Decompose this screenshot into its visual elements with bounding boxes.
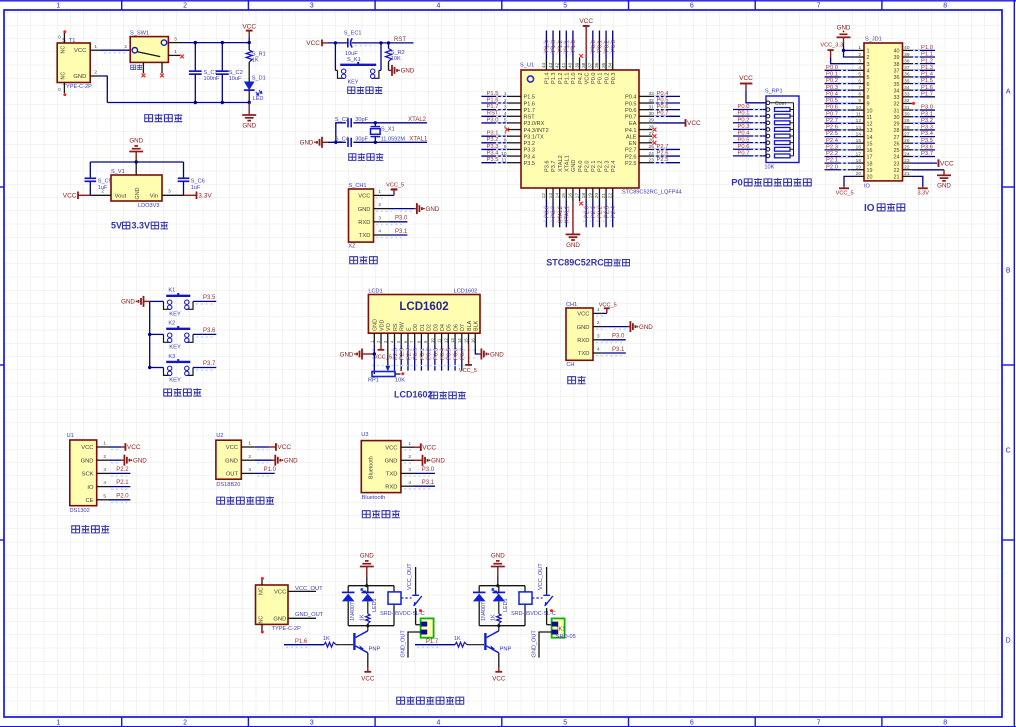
svg-text:GND: GND	[577, 325, 590, 331]
svg-text:P3.7: P3.7	[921, 151, 933, 157]
RP1 resistor P0.7	[733, 151, 794, 158]
svg-text:P0.4: P0.4	[826, 91, 839, 97]
resistor 1K vertical (P1.6)	[359, 601, 370, 625]
svg-text:P2.2: P2.2	[598, 206, 604, 218]
svg-text:VCC: VCC	[492, 675, 506, 682]
svg-text:P1.0: P1.0	[571, 40, 577, 52]
MCU pin 5 P3.0/RX	[481, 117, 544, 127]
svg-text:31: 31	[894, 108, 900, 114]
MCU pin 36 P0.1 (top)	[594, 31, 603, 85]
JD1 pin 21	[894, 171, 912, 180]
svg-text:P2.1: P2.1	[591, 206, 597, 218]
svg-text:S_U1: S_U1	[520, 63, 534, 69]
svg-text:P2.6: P2.6	[826, 125, 838, 131]
svg-text:11.0592M: 11.0592M	[381, 136, 406, 142]
svg-text:GND_OUT: GND_OUT	[401, 630, 407, 658]
svg-text:4: 4	[858, 65, 861, 71]
svg-text:P0.4: P0.4	[625, 95, 637, 101]
svg-text:PNP: PNP	[369, 647, 381, 653]
svg-text:KEY: KEY	[169, 311, 181, 317]
svg-text:33: 33	[904, 92, 910, 98]
top rail wire VCC net	[183, 41, 251, 44]
svg-text:40: 40	[568, 62, 574, 68]
LED (P1.6)	[361, 589, 378, 612]
svg-text:9: 9	[858, 98, 861, 104]
title 下载口	[350, 256, 378, 264]
relay circuit ground (P1.6)	[360, 553, 374, 586]
svg-text:29: 29	[894, 122, 900, 128]
svg-text:GND: GND	[937, 183, 951, 190]
svg-text:P3.2: P3.2	[921, 118, 933, 124]
svg-text:31: 31	[904, 105, 910, 111]
svg-text:38: 38	[581, 62, 587, 68]
svg-text:P3.5: P3.5	[524, 161, 536, 167]
svg-text:5: 5	[867, 75, 870, 81]
svg-text:P3.1: P3.1	[395, 229, 408, 235]
svg-text:13: 13	[856, 125, 862, 131]
svg-text:P0.4: P0.4	[738, 131, 751, 137]
ground reset	[389, 62, 415, 76]
svg-text:VCC: VCC	[242, 23, 256, 30]
MCU pin 21 P2.3 (bottom)	[601, 160, 610, 227]
JD1 pin 5	[825, 72, 870, 82]
svg-text:P3.4: P3.4	[921, 131, 934, 137]
svg-text:2: 2	[408, 454, 411, 460]
JD1 pin 8	[825, 91, 870, 101]
svg-text:36: 36	[894, 75, 900, 81]
svg-text:17: 17	[856, 151, 862, 157]
connector S_JD1 box	[864, 37, 903, 190]
VCC_OUT wire	[288, 586, 323, 592]
svg-text:28: 28	[648, 124, 654, 130]
JD1 pin 38	[894, 58, 936, 68]
MCU pin 14 XTAL2 (bottom)	[554, 155, 563, 227]
svg-text:1K: 1K	[490, 614, 496, 621]
title 复位电路	[348, 86, 383, 93]
MCU pin 31 P0.6	[625, 104, 680, 114]
svg-text:KEY: KEY	[169, 344, 181, 350]
transistor PNP (P1.7)	[484, 626, 511, 653]
svg-text:27: 27	[648, 131, 654, 137]
svg-text:LCD1602: LCD1602	[394, 390, 433, 400]
JD1 pin 7	[825, 85, 870, 95]
svg-text:ALE: ALE	[626, 134, 637, 140]
MCU pin 4 RST	[481, 111, 535, 121]
connector S_T1 TYPE-C-2P	[57, 38, 92, 90]
svg-text:RS: RS	[393, 323, 399, 331]
relay rails (P1.6)	[348, 584, 394, 627]
svg-text:1uF: 1uF	[191, 185, 201, 191]
CH1 pin1 VCC_5	[593, 302, 617, 316]
svg-text:U2: U2	[216, 433, 223, 439]
MCU pin 30 P0.7	[625, 111, 680, 121]
svg-text:P0.6: P0.6	[738, 144, 750, 150]
svg-text:TYPE-C-2P: TYPE-C-2P	[63, 84, 92, 90]
svg-text:1: 1	[103, 441, 106, 447]
svg-text:Bluetooth: Bluetooth	[369, 456, 375, 479]
U1 pin1 VCC	[97, 441, 141, 452]
svg-text:VCC: VCC	[306, 40, 320, 47]
svg-text:P2.0: P2.0	[584, 206, 590, 218]
svg-text:10K: 10K	[764, 165, 774, 171]
GND_OUT branch (P1.6)	[401, 630, 421, 658]
svg-text:P0.6: P0.6	[657, 104, 669, 110]
svg-text:15: 15	[856, 138, 862, 144]
svg-text:5: 5	[103, 493, 106, 499]
JD1 pin 26	[894, 138, 936, 148]
svg-text:P4.0: P4.0	[578, 160, 584, 172]
svg-text:20: 20	[594, 193, 600, 199]
svg-text:K3: K3	[168, 354, 175, 360]
svg-text:6: 6	[690, 3, 694, 10]
svg-text:NC: NC	[61, 72, 67, 80]
svg-text:3: 3	[858, 58, 861, 64]
U3 pin3 P3.0	[401, 467, 435, 476]
svg-text:1: 1	[400, 367, 403, 373]
LCD pin 13 D6	[450, 324, 459, 371]
JD1 VCC pin 23	[912, 159, 954, 167]
svg-text:P1.3: P1.3	[551, 40, 557, 52]
JD1 pin 20	[855, 171, 873, 180]
MCU pin 19 P2.1 (bottom)	[588, 160, 597, 227]
title 继电器控制电路	[397, 696, 464, 704]
capacitor S_C6 1uF	[178, 162, 205, 195]
svg-text:RST: RST	[524, 115, 536, 121]
U2 pin2 GND	[241, 454, 298, 466]
svg-text:3.3V: 3.3V	[918, 191, 930, 197]
svg-text:VCC: VCC	[277, 444, 291, 451]
svg-text:1K: 1K	[252, 57, 259, 63]
svg-text:P1.2: P1.2	[921, 58, 933, 64]
JD1 pin 28	[894, 125, 936, 135]
svg-text:D4: D4	[440, 324, 446, 331]
JD1 pin 34	[894, 85, 936, 95]
svg-text:GND: GND	[639, 324, 653, 331]
svg-text:GND: GND	[81, 458, 94, 464]
svg-text:19: 19	[867, 168, 873, 174]
ground symbol power circuit	[242, 103, 256, 130]
svg-text:LED1: LED1	[503, 599, 509, 613]
svg-text:S_C1: S_C1	[204, 70, 218, 76]
MCU pin 42 P1.2 (top)	[554, 31, 563, 85]
svg-text:D7: D7	[460, 324, 466, 331]
svg-text:P2.7: P2.7	[657, 144, 669, 150]
svg-text:5: 5	[563, 720, 567, 727]
svg-text:D2: D2	[427, 324, 433, 331]
U3 pin4 P3.1	[401, 480, 435, 489]
svg-text:P0.3: P0.3	[738, 124, 750, 130]
capacitor S_C2 10uF	[216, 43, 243, 103]
title 串口	[568, 376, 586, 384]
svg-text:GND: GND	[360, 553, 374, 560]
LCD pin 6 E	[403, 327, 412, 371]
svg-text:19: 19	[588, 193, 594, 199]
svg-text:1N4007: 1N4007	[481, 602, 487, 621]
svg-text:2: 2	[858, 52, 861, 58]
MCU pin 34 P0.3 (top)	[608, 31, 617, 85]
svg-text:34: 34	[894, 88, 900, 94]
svg-text:P3.7: P3.7	[551, 206, 557, 218]
svg-text:STC89C52RC_LQFP44: STC89C52RC_LQFP44	[622, 190, 682, 196]
JD1 pin 12	[825, 118, 873, 128]
svg-text:GND: GND	[225, 458, 238, 464]
switch S_SW1	[130, 31, 168, 70]
svg-text:VCC_3.3: VCC_3.3	[820, 43, 843, 49]
JD1 pin 27	[894, 131, 936, 141]
RP1 resistor P0.1	[733, 111, 794, 118]
svg-text:LED1: LED1	[372, 599, 378, 613]
relay coil SRD-05VDC-SL-C (P1.6)	[380, 592, 425, 617]
svg-text:P2.2: P2.2	[116, 467, 129, 473]
RP1 resistor P0.2	[733, 117, 794, 124]
svg-text:20: 20	[867, 175, 873, 181]
svg-text:P3.6: P3.6	[545, 160, 551, 172]
svg-text:E: E	[406, 327, 412, 331]
JD1 pin 24	[894, 151, 936, 161]
MCU pin 17 P4.0 (bottom)	[574, 160, 583, 205]
MCU pin 8 P3.2	[481, 137, 535, 147]
svg-text:39: 39	[574, 62, 580, 68]
svg-text:GND_OUT: GND_OUT	[532, 630, 538, 658]
svg-text:11: 11	[867, 115, 873, 121]
U1 pin3 P2.2	[97, 467, 131, 476]
MCU ground symbol	[566, 229, 581, 249]
svg-text:P1.3: P1.3	[921, 65, 933, 71]
svg-text:P3.6: P3.6	[921, 144, 933, 150]
svg-text:16: 16	[470, 338, 475, 343]
svg-text:21: 21	[601, 193, 607, 199]
svg-text:GND: GND	[566, 242, 580, 249]
svg-text:VCC: VCC	[361, 675, 375, 682]
svg-text:3: 3	[310, 3, 314, 10]
svg-text:TXD: TXD	[359, 233, 371, 239]
JD1 pin 10	[825, 105, 873, 115]
svg-text:P1.4: P1.4	[921, 72, 934, 78]
svg-text:TXD: TXD	[578, 351, 590, 357]
title 电源电路	[145, 114, 183, 122]
svg-text:15: 15	[464, 338, 469, 343]
svg-text:NC: NC	[259, 587, 265, 595]
svg-text:14: 14	[554, 193, 560, 199]
svg-text:14: 14	[856, 131, 862, 137]
svg-text:25: 25	[904, 145, 910, 151]
svg-text:U3: U3	[361, 432, 368, 438]
svg-text:VCC_5: VCC_5	[386, 183, 404, 189]
svg-text:GND: GND	[426, 206, 440, 213]
svg-text:GND: GND	[431, 458, 445, 465]
svg-text:VCC: VCC	[358, 194, 370, 200]
svg-text:P1.4: P1.4	[545, 39, 551, 52]
title 晶振电路	[349, 153, 384, 160]
svg-text:P0.6: P0.6	[625, 108, 637, 114]
CH1 pin2 GND	[593, 320, 653, 332]
LCD pin2 VDD VCC_5 port	[374, 344, 392, 360]
XTAL2 wire	[353, 117, 427, 125]
svg-text:EN: EN	[629, 141, 637, 147]
emitter VCC (P1.7)	[492, 653, 506, 683]
connector S_CH1	[348, 183, 373, 249]
svg-text:32: 32	[894, 102, 900, 108]
svg-text:P3.5: P3.5	[203, 295, 216, 301]
svg-text:P0.2: P0.2	[826, 78, 838, 84]
svg-text:12: 12	[867, 122, 873, 128]
svg-text:43: 43	[548, 62, 554, 68]
svg-text:P1.1: P1.1	[564, 73, 570, 85]
svg-text:P1.6: P1.6	[524, 101, 536, 107]
MCU pin 23 P2.5	[625, 157, 680, 167]
svg-text:VCC: VCC	[74, 48, 86, 54]
svg-text:P1.3: P1.3	[551, 73, 557, 85]
svg-text:P0.5: P0.5	[657, 97, 669, 103]
svg-text:2: 2	[378, 202, 381, 208]
svg-text:D3: D3	[433, 324, 439, 331]
svg-text:3: 3	[408, 467, 411, 473]
LCD pin 3 VO	[383, 323, 392, 344]
svg-text:VCC_OUT: VCC_OUT	[538, 563, 544, 590]
wire LDO top rail	[90, 160, 183, 163]
JD1 pin 9	[825, 98, 870, 108]
svg-text:P0.0: P0.0	[591, 73, 597, 85]
title STC89C52RC主芯片	[546, 258, 629, 268]
MCU pin 39 P4.2 (top)	[574, 54, 583, 84]
svg-text:9: 9	[867, 102, 870, 108]
svg-text:BLK: BLK	[474, 320, 480, 331]
svg-text:P4.2: P4.2	[578, 73, 584, 85]
svg-text:1: 1	[408, 441, 411, 447]
power port VCC	[242, 23, 256, 42]
svg-text:GND: GND	[490, 351, 504, 358]
svg-text:5V: 5V	[111, 221, 122, 231]
JD1 pin 37	[894, 65, 936, 75]
svg-text:37: 37	[904, 65, 910, 71]
LCD pin 8 D1	[416, 324, 425, 371]
JD1 GND pin 22	[912, 170, 952, 190]
svg-text:P0.1: P0.1	[598, 40, 604, 52]
RP1 resistor P0.4	[733, 131, 794, 138]
svg-text:D0: D0	[413, 324, 419, 331]
svg-text:LED: LED	[253, 96, 264, 102]
relay rails (P1.7)	[479, 584, 525, 627]
svg-text:34: 34	[904, 85, 910, 91]
svg-text:P1.4: P1.4	[545, 73, 551, 85]
LCD pin 1 GND	[369, 319, 378, 344]
port VCC reset	[306, 40, 328, 48]
svg-text:6: 6	[858, 78, 861, 84]
port 3.3V right	[184, 192, 213, 200]
svg-text:S_C2: S_C2	[229, 70, 243, 76]
svg-text:XTAL1: XTAL1	[564, 155, 570, 172]
svg-text:15: 15	[867, 141, 873, 147]
LED S_D1	[244, 62, 266, 103]
svg-text:11: 11	[437, 338, 442, 343]
svg-text:21: 21	[894, 175, 900, 181]
svg-text:P1.1: P1.1	[564, 40, 570, 52]
svg-text:A: A	[1006, 89, 1011, 96]
MCU pin 41 P1.1 (top)	[561, 31, 570, 85]
svg-text:26: 26	[648, 138, 654, 144]
base resistor 1K (P1.7)	[415, 636, 484, 647]
svg-text:P0.7: P0.7	[625, 115, 637, 121]
svg-text:22: 22	[904, 165, 910, 171]
svg-text:23: 23	[894, 161, 900, 167]
resistor network S_RP1 10K	[764, 89, 799, 171]
svg-text:S_X1: S_X1	[381, 127, 395, 133]
svg-text:4: 4	[597, 347, 600, 353]
svg-text:K2: K2	[168, 321, 175, 327]
svg-text:28: 28	[894, 128, 900, 134]
relay coil SRD-05VDC-SL-C (P1.7)	[511, 592, 556, 617]
svg-text:36: 36	[594, 62, 600, 68]
MCU pin 2 P1.6	[481, 97, 535, 107]
svg-text:26: 26	[904, 138, 910, 144]
base resistor 1K (P1.6)	[284, 636, 353, 647]
svg-text:1: 1	[867, 49, 870, 55]
terminal connector (P1.7)	[552, 618, 576, 640]
MCU pin 24 P2.6	[625, 150, 680, 160]
MCU pin 37 P0.0 (top)	[588, 31, 597, 85]
svg-text:24: 24	[894, 155, 900, 161]
wire GND pin down to bottom rail	[100, 76, 107, 103]
svg-text:10: 10	[430, 338, 435, 343]
svg-text:P3.1: P3.1	[612, 347, 625, 353]
svg-text:S_SW1: S_SW1	[130, 31, 149, 37]
svg-text:5: 5	[858, 72, 861, 78]
wire VCC pin to switch	[100, 44, 130, 53]
capacitor S_C5 1uF	[85, 162, 112, 195]
svg-text:P3.0: P3.0	[612, 334, 625, 340]
diode 1N4007 (P1.7)	[473, 592, 487, 621]
svg-text:8: 8	[867, 95, 870, 101]
MCU pin 28 P4.1	[625, 124, 656, 134]
svg-text:IO: IO	[864, 183, 871, 189]
MCU pin 3 P1.7	[481, 104, 535, 114]
JD1 pin 4	[825, 65, 870, 75]
JD1 VCC_5 port pin 20	[836, 176, 855, 196]
JD1 pin 22	[894, 165, 912, 174]
svg-text:VCC_5: VCC_5	[459, 368, 477, 374]
svg-text:P0.1: P0.1	[738, 111, 750, 117]
svg-text:7: 7	[858, 85, 861, 91]
svg-text:RXD: RXD	[358, 220, 370, 226]
svg-text:1: 1	[56, 3, 60, 10]
MCU pin 43 P1.3 (top)	[548, 31, 557, 85]
svg-text:XZ: XZ	[348, 244, 356, 250]
svg-text:Vin: Vin	[150, 193, 158, 199]
U1 pin2 GND	[97, 454, 148, 466]
svg-text:3: 3	[310, 720, 314, 727]
svg-text:VCC: VCC	[940, 160, 954, 167]
resistor S_R2 10K	[386, 43, 405, 62]
svg-text:VCC_5: VCC_5	[836, 191, 854, 197]
svg-text:7: 7	[817, 720, 821, 727]
svg-text:2: 2	[867, 55, 870, 61]
svg-text:1K: 1K	[359, 614, 365, 621]
svg-text:1N4007: 1N4007	[350, 602, 356, 621]
svg-text:Com: Com	[775, 101, 786, 107]
LCD pin 4 RS	[389, 323, 398, 370]
TYPE-C top/bottom pins	[261, 577, 264, 634]
svg-text:26: 26	[894, 141, 900, 147]
svg-text:P2.4: P2.4	[826, 138, 839, 144]
svg-text:P3.4: P3.4	[524, 154, 536, 160]
title IO拓展口	[864, 203, 905, 214]
JD1 pin 18	[825, 158, 873, 168]
svg-text:3.3V: 3.3V	[132, 221, 151, 231]
svg-text:38: 38	[904, 58, 910, 64]
LED (P1.7)	[492, 589, 509, 612]
JD1 VCC_3.3 port pin 3	[820, 43, 854, 64]
svg-text:37: 37	[588, 62, 594, 68]
